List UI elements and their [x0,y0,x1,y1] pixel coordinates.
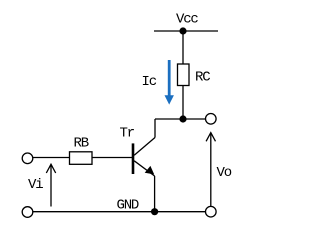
junction collector output node [179,115,186,122]
resistor RB [70,152,93,165]
svg-text:Vi: Vi [28,177,43,193]
svg-text:GND: GND [117,198,139,214]
svg-text:RB: RB [74,136,89,152]
transistor Q1 collector lead [134,138,155,156]
transistor Q1 emitter lead with arrow [134,161,154,176]
svg-text:Vcc: Vcc [176,12,198,28]
terminal ground-left circle [22,207,33,218]
resistor RC [178,64,190,86]
wire ground rail [33,211,205,213]
transistor Q1 base bar [132,143,135,174]
wire Vcc top rail [154,30,218,32]
voltage arrow Vi [46,164,55,206]
svg-text:Ic: Ic [142,74,157,90]
junction emitter ground node [151,208,158,215]
current arrow Ic (blue) [165,60,174,105]
wire collector node horizontal [155,118,205,120]
wire RC bottom to collector node [182,86,184,120]
svg-text:Vo: Vo [217,165,232,181]
terminal input circle [22,153,33,164]
voltage arrow Vo [206,133,215,207]
terminal output bottom circle [206,206,217,217]
terminal output top circle [206,114,217,125]
junction Vcc node [179,27,186,34]
wire input to base [33,157,132,159]
wire Vcc rail to RC top [182,31,184,64]
svg-text:Tr: Tr [120,126,135,142]
wire collector vertical [154,119,156,138]
svg-text:RC: RC [195,70,210,86]
wire emitter vertical [154,176,156,212]
